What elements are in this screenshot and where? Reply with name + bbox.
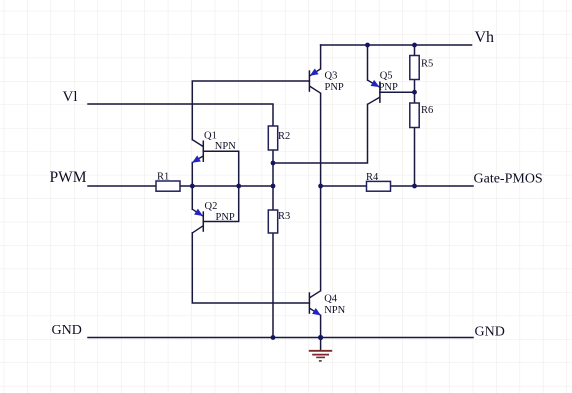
- svg-text:R4: R4: [366, 172, 379, 183]
- svg-text:PNP: PNP: [379, 82, 398, 93]
- svg-text:Q3: Q3: [325, 71, 338, 82]
- svg-text:R5: R5: [421, 59, 433, 70]
- svg-text:Gate-PMOS: Gate-PMOS: [474, 172, 543, 187]
- svg-text:R6: R6: [421, 105, 433, 116]
- svg-text:PNP: PNP: [325, 82, 344, 93]
- svg-text:PNP: PNP: [216, 212, 235, 223]
- svg-text:PWM: PWM: [50, 169, 87, 186]
- svg-text:Q1: Q1: [204, 130, 217, 141]
- svg-text:R3: R3: [278, 211, 290, 222]
- svg-text:Q2: Q2: [205, 201, 218, 212]
- svg-text:R1: R1: [157, 171, 169, 182]
- svg-text:Vh: Vh: [475, 29, 495, 46]
- svg-text:Q4: Q4: [324, 293, 338, 304]
- svg-text:GND: GND: [475, 324, 505, 339]
- svg-text:Q5: Q5: [380, 71, 393, 82]
- svg-text:R2: R2: [278, 131, 290, 142]
- svg-text:GND: GND: [52, 323, 82, 338]
- svg-text:Vl: Vl: [63, 89, 78, 105]
- svg-text:NPN: NPN: [324, 305, 345, 316]
- svg-text:NPN: NPN: [215, 141, 236, 152]
